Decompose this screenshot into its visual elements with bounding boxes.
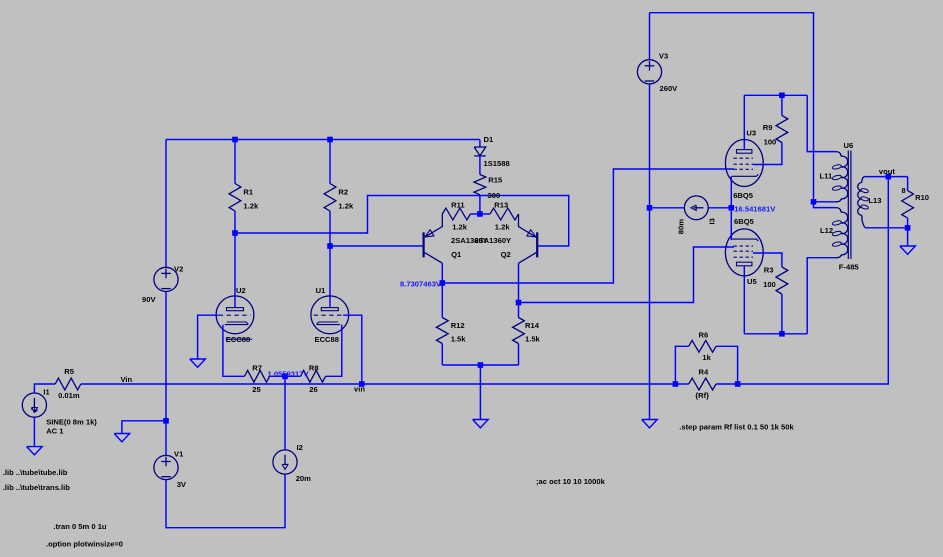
wire U2 cathode lead (223, 325, 245, 377)
svg-text:2SA1360Y: 2SA1360Y (474, 236, 511, 245)
svg-text:R9: R9 (763, 123, 773, 132)
svg-text:U5: U5 (747, 277, 757, 286)
label I1 (43, 388, 50, 397)
ground under R12/R14 (473, 420, 489, 428)
label L13 (868, 196, 881, 205)
svg-text:{Rf}: {Rf} (695, 391, 709, 400)
value R4 Rf (695, 391, 709, 400)
wire Q1 collector lead (441, 263, 443, 283)
wire U2 grid to ground (198, 315, 219, 359)
svg-text:Vin: Vin (121, 375, 133, 384)
svg-text:R8: R8 (309, 364, 319, 373)
tube U5 pentode 6BQ5 (725, 229, 763, 276)
svg-text:R5: R5 (64, 367, 74, 376)
annotation voltage 1.0559317V (268, 369, 310, 378)
wire R2 top lead (329, 140, 331, 184)
inductor L11 (832, 152, 848, 202)
current source I3 (684, 196, 708, 220)
ground under I1 (27, 447, 43, 455)
wire R2 bottom lead to U1 plate (329, 211, 331, 308)
value R9 100 (764, 138, 777, 147)
node label Vin (121, 375, 133, 384)
wire R1-bottom net jog to y195 rail (235, 196, 569, 247)
value Q1 2SA1360Y (451, 236, 488, 245)
resistor R1 (229, 184, 241, 212)
label L12 (820, 226, 833, 235)
label R15 (488, 176, 503, 185)
node junction R12/R14 midpoint (478, 362, 484, 368)
svg-text:L11: L11 (820, 172, 833, 181)
wire Vin rail (81, 383, 676, 385)
transistor Q1 (424, 214, 443, 263)
label Q1 (451, 250, 462, 259)
label R8 (309, 364, 319, 373)
value R8 26 (309, 385, 317, 394)
resistor R10 (902, 191, 914, 218)
value D1 1S1588 (484, 159, 510, 168)
wire V2 bottom lead (165, 292, 167, 421)
node junction R4/R6 right (735, 381, 741, 387)
wire R1 top lead (234, 140, 236, 184)
wire U3 screen lead (753, 143, 782, 165)
svg-text:R4: R4 (699, 368, 709, 377)
tube U3 pentode 6BQ5 (725, 140, 763, 187)
wire ground branch left (122, 421, 166, 434)
svg-text:R6: R6 (699, 331, 709, 340)
label I3 (708, 218, 717, 224)
current source I1 (22, 393, 46, 417)
label R13 (494, 201, 508, 210)
transistor Q2 (519, 214, 538, 263)
resistor R6 (689, 340, 716, 352)
value R3 100 (763, 280, 776, 289)
svg-text:1.2k: 1.2k (495, 223, 511, 232)
value Q2 2SA1360Y (474, 236, 511, 245)
node junction cathodes / I3 (729, 205, 735, 211)
svg-text:6BQ5: 6BQ5 (733, 191, 754, 200)
wire R4 right lead (716, 383, 738, 385)
wire Q1 collector to U3 grid (442, 169, 734, 283)
wire R7-R8 middle (270, 375, 301, 377)
diode D1 (474, 147, 486, 156)
svg-text:R13: R13 (494, 201, 508, 210)
directive tran (53, 522, 107, 531)
directive option plotwinsize (46, 540, 123, 549)
wire R8 to U1 cathode (326, 325, 342, 377)
svg-text:20m: 20m (296, 474, 311, 483)
value R6 1k (702, 353, 711, 362)
label R12 (451, 321, 465, 330)
value U1 ECC88 (315, 335, 339, 344)
svg-text:I3: I3 (708, 218, 717, 224)
svg-text:U3: U3 (746, 129, 756, 138)
svg-text:I2: I2 (297, 443, 303, 452)
resistor R7 (245, 370, 270, 382)
svg-text:F-485: F-485 (839, 263, 860, 272)
wire rail to R4 right (675, 383, 688, 385)
wire tail to I2 (284, 376, 286, 450)
resistor R5 (55, 378, 81, 390)
svg-text:U6: U6 (844, 141, 854, 150)
svg-text:8.7307463V: 8.7307463V (400, 279, 442, 288)
value I1 SINE (46, 418, 97, 427)
resistor R12 (436, 318, 448, 344)
current source I1 sine mark (31, 407, 37, 412)
svg-text:R12: R12 (451, 321, 465, 330)
value V2 90V (142, 295, 156, 304)
node label vin (354, 385, 365, 394)
voltage source V3 (637, 60, 661, 84)
svg-text:L13: L13 (868, 196, 881, 205)
svg-text:8: 8 (902, 186, 906, 195)
svg-text:Q1: Q1 (451, 250, 462, 259)
node junction R4/R6 left (673, 381, 679, 387)
svg-text:vout: vout (879, 167, 896, 176)
value I3 80m (676, 219, 685, 234)
annotation voltage 16.541681V (734, 204, 776, 213)
node junction R1 top (232, 137, 238, 143)
directive lib trans.lib (3, 483, 70, 492)
wire U5 screen lead (753, 253, 782, 267)
wire R15 bottom lead to R11/R13 midpoint (479, 195, 481, 214)
value R10 8 (902, 186, 906, 195)
resistor R3 (776, 267, 788, 294)
node junction R2 bottom / U1 plate / Q1 base (327, 243, 333, 249)
wire U1 grid to vin rail (343, 315, 362, 384)
label U5 (747, 277, 757, 286)
wire R6 right leg (716, 346, 738, 384)
wire top rail B+ 90V (166, 139, 480, 141)
svg-text:3V: 3V (177, 480, 187, 489)
wire R11 to midpoint (470, 213, 480, 215)
label U2 (236, 286, 246, 295)
wire U3 plate rail (744, 94, 807, 96)
annotation voltage 8.7307463V (400, 279, 442, 288)
svg-text:ECC88: ECC88 (315, 335, 339, 344)
wire D1 cathode to R15 (479, 156, 481, 175)
resistor R4 (689, 378, 716, 390)
svg-text:1.5k: 1.5k (525, 335, 541, 344)
wire midpoint to R13 (480, 213, 490, 215)
ground V3 minus (642, 420, 658, 428)
inductor L13 (858, 177, 869, 228)
label R5 (64, 367, 74, 376)
wire feedback from vout (738, 177, 889, 384)
voltage source V2 (154, 267, 178, 291)
svg-text:U1: U1 (316, 286, 326, 295)
wire R6 left leg (675, 346, 688, 384)
wire R12 top lead (441, 283, 443, 318)
value R14 1.5k (525, 335, 541, 344)
resistor R8 (301, 370, 326, 382)
resistor R13 (490, 208, 519, 220)
wire I3 left lead (650, 207, 685, 209)
svg-text:.tran 0 5m 0 1u: .tran 0 5m 0 1u (53, 522, 107, 531)
svg-text:25: 25 (252, 385, 261, 394)
value R12 1.5k (451, 335, 467, 344)
svg-text:Q2: Q2 (501, 250, 511, 259)
ground secondary (900, 246, 916, 254)
resistor R15 (474, 175, 486, 195)
inductor L12 (832, 208, 848, 258)
resistor R11 (442, 208, 470, 220)
svg-text:I1: I1 (43, 388, 50, 397)
svg-text:.option plotwinsize=0: .option plotwinsize=0 (46, 540, 123, 549)
svg-text:L12: L12 (820, 226, 833, 235)
svg-text:SINE(0 8m 1k): SINE(0 8m 1k) (46, 418, 97, 427)
node label vout (879, 167, 896, 176)
svg-text:1.2k: 1.2k (243, 202, 259, 211)
wire Q1 base wire (330, 245, 424, 247)
wire V2 top lead (165, 140, 167, 268)
node junction Q2 collector (516, 300, 522, 306)
label Q2 (501, 250, 511, 259)
resistor R2 (324, 184, 336, 212)
wire R12/R14 bottom rail (442, 364, 518, 366)
value U3 6BQ5 (733, 191, 754, 200)
wire center tap jog (814, 202, 836, 208)
label V2 (174, 265, 183, 274)
svg-text:.lib ..\tube\trans.lib: .lib ..\tube\trans.lib (3, 483, 70, 492)
wire Q2 collector lead (518, 263, 520, 302)
svg-text:1.2k: 1.2k (338, 202, 354, 211)
label R10 (915, 193, 929, 202)
tube U2 triode ECC88 (216, 296, 254, 334)
value R2 1.2k (338, 202, 354, 211)
node junction V3- / I3 (647, 205, 653, 211)
wire V3 top lead (649, 13, 651, 60)
label U6 (844, 141, 854, 150)
svg-text:0.01m: 0.01m (58, 391, 80, 400)
svg-text:26: 26 (309, 385, 317, 394)
svg-text:D1: D1 (484, 135, 494, 144)
label U3 (746, 129, 756, 138)
node vout (886, 174, 892, 180)
svg-text:.lib ..\tube\tube.lib: .lib ..\tube\tube.lib (3, 468, 68, 477)
value V1 3V (177, 480, 187, 489)
wire B+ top rail (650, 13, 814, 202)
transformer U6 core (848, 151, 851, 260)
value R15 300 (488, 191, 501, 200)
wire R3 bottom lead (781, 294, 783, 334)
wire L11 bottom lead / center tap (814, 201, 836, 203)
label R14 (525, 321, 540, 330)
svg-text:R2: R2 (338, 188, 348, 197)
svg-text:1.2k: 1.2k (452, 223, 468, 232)
label D1 (484, 135, 494, 144)
node junction transformer center tap (811, 199, 817, 205)
ground U2 grid (190, 359, 206, 367)
svg-text:R14: R14 (525, 321, 540, 330)
wire R9 top lead (781, 95, 783, 115)
wire V3 bottom lead (649, 84, 651, 420)
wire R14 bottom lead (518, 344, 520, 366)
directive step param Rf (679, 423, 794, 432)
value R5 0.01m (58, 391, 80, 400)
label L11 (820, 172, 833, 181)
wire U3/U5 cathode link (730, 176, 732, 240)
value V3 260V (660, 84, 679, 93)
value U6 F-485 (839, 263, 860, 272)
wire R12 bottom lead (441, 344, 443, 366)
svg-text:R7: R7 (252, 364, 262, 373)
svg-text:R11: R11 (451, 201, 465, 210)
wire stray segment over U2 label (226, 338, 253, 340)
resistor R9 (776, 116, 788, 143)
svg-text:U2: U2 (236, 286, 246, 295)
svg-text:R15: R15 (488, 176, 503, 185)
current source I2 (273, 450, 297, 474)
wire L13 top lead / vout (865, 176, 907, 178)
wire I1 top lead (34, 384, 55, 393)
label R6 (699, 331, 709, 340)
value U5 6BQ5 (734, 217, 755, 226)
directive lib tube.lib (3, 468, 68, 477)
svg-text:300: 300 (488, 191, 501, 200)
directive ac comment (536, 477, 606, 486)
label R1 (243, 188, 253, 197)
wire I3 right lead (708, 207, 731, 209)
value R7 25 (252, 385, 261, 394)
wire U5 plate rail (744, 333, 807, 335)
svg-text:V1: V1 (174, 450, 184, 459)
node junction cathode resistors midpoint (282, 374, 288, 380)
node junction V2- / ground branch (163, 418, 169, 424)
value R13 1.2k (495, 223, 511, 232)
label R2 (338, 188, 348, 197)
wire V1 bottom to I2 bottom (166, 474, 285, 528)
svg-text:1.0559317V: 1.0559317V (268, 369, 310, 378)
wire R14 top lead (518, 303, 520, 318)
svg-text:.step param Rf list 0.1 50 1k: .step param Rf list 0.1 50 1k 50k (679, 423, 794, 432)
svg-text:90V: 90V (142, 295, 156, 304)
wire secondary ground lead (907, 228, 909, 246)
wire L11 top lead (807, 95, 835, 151)
node junction R11/R13 midpoint (477, 211, 483, 217)
label V1 (174, 450, 184, 459)
value U2 ECC88 (226, 335, 250, 344)
label R9 (763, 123, 773, 132)
ground left of V1 (114, 434, 129, 442)
svg-text:AC 1: AC 1 (46, 427, 64, 436)
value I1 AC 1 (46, 427, 64, 436)
node junction U1 grid tap (vin) (359, 381, 365, 387)
wire R10 bottom lead (907, 218, 909, 228)
wire R1 bottom lead to U2 plate (234, 211, 236, 308)
wire D1 anode lead (479, 140, 481, 148)
svg-text:80m: 80m (676, 219, 685, 234)
resistor R14 (513, 318, 525, 344)
node junction R2 top (327, 137, 333, 143)
node junction Q1 collector (440, 280, 446, 286)
wire U5 plate lead (743, 266, 745, 334)
svg-text:R1: R1 (243, 188, 253, 197)
node junction R9 top (779, 93, 785, 99)
wire tail to ground (479, 365, 481, 420)
value R11 1.2k (452, 223, 468, 232)
svg-text:R10: R10 (915, 193, 929, 202)
label R7 (252, 364, 262, 373)
wire L12 bottom lead (807, 258, 835, 334)
svg-text:R3: R3 (764, 266, 774, 275)
node junction R1 bottom / U2 plate (232, 230, 238, 236)
svg-text:16.541681V: 16.541681V (734, 204, 776, 213)
label R3 (764, 266, 774, 275)
svg-text:1.5k: 1.5k (451, 335, 467, 344)
wire L13 bottom lead (865, 227, 907, 229)
wire U3 plate lead (743, 95, 745, 150)
label V3 (659, 52, 668, 61)
wire V1 top lead (165, 421, 167, 456)
wire Q2 collector to U5 grid (519, 247, 735, 303)
label R4 (699, 368, 709, 377)
label R11 (451, 201, 465, 210)
label U1 (316, 286, 326, 295)
wire R10 top lead (907, 177, 909, 191)
svg-text:1S1588: 1S1588 (484, 159, 510, 168)
value I2 20m (296, 474, 311, 483)
svg-text:100: 100 (764, 138, 777, 147)
svg-text:V2: V2 (174, 265, 183, 274)
wire I1 bottom lead (33, 417, 35, 446)
label I2 (297, 443, 303, 452)
value R1 1.2k (243, 202, 259, 211)
tube U1 triode ECC88 (311, 296, 349, 334)
node junction L13-/R10- (905, 225, 911, 231)
svg-text:260V: 260V (660, 84, 679, 93)
svg-text:V3: V3 (659, 52, 668, 61)
svg-text:100: 100 (763, 280, 776, 289)
svg-text:;ac oct 10 10 1000k: ;ac oct 10 10 1000k (536, 477, 606, 486)
svg-text:6BQ5: 6BQ5 (734, 217, 755, 226)
svg-text:1k: 1k (702, 353, 711, 362)
svg-text:vin: vin (354, 385, 365, 394)
voltage source V1 (154, 455, 178, 479)
node junction R3 bottom (779, 331, 785, 337)
